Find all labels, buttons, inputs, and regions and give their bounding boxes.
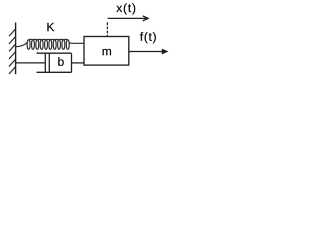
damper rod to mass [72, 62, 85, 64]
label b [58, 57, 63, 66]
damper rod from wall [16, 62, 45, 64]
f(t) arrowhead [162, 49, 169, 55]
mass m [84, 37, 129, 66]
damper piston plate [44, 53, 46, 72]
damper cylinder [37, 53, 72, 72]
dashed reference line [106, 22, 108, 36]
x(t) arrow [108, 16, 149, 21]
f(t) arrow [129, 51, 162, 53]
label m [103, 49, 111, 55]
wall hatching [9, 29, 16, 74]
label f(t) [140, 32, 156, 43]
label K [47, 23, 54, 31]
spring K [16, 39, 84, 49]
label x(t) [116, 3, 135, 14]
wall [15, 23, 17, 75]
